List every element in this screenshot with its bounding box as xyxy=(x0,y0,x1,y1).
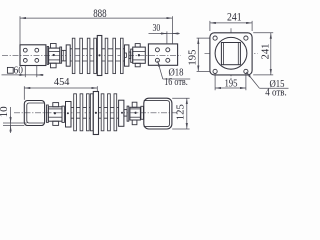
dim line 241 top xyxy=(210,22,252,24)
clamp right bolt bottom xyxy=(135,63,140,67)
ext line hole right xyxy=(36,66,38,78)
cap dot lower-left xyxy=(67,112,69,114)
arrow 10 upper xyxy=(10,116,12,123)
bolt bottom lower-left xyxy=(53,121,59,125)
centerline lower bushing xyxy=(14,112,178,114)
svg-text:125: 125 xyxy=(176,104,187,120)
square symbol of 60 label xyxy=(7,67,13,73)
core top line lower xyxy=(71,106,119,108)
cap stud mark xyxy=(125,53,127,57)
svg-text:241: 241 xyxy=(260,44,271,60)
bolt dot lower-right xyxy=(134,112,136,114)
ext 888 right / 30 right xyxy=(171,16,173,44)
clamp box lower-left xyxy=(48,107,62,121)
clamp left inner line bottom xyxy=(49,59,60,61)
dim line 60 xyxy=(2,74,44,76)
clamp box left xyxy=(49,48,60,63)
flange central circle xyxy=(215,37,247,69)
svg-text:60: 60 xyxy=(14,65,23,76)
clamp box right xyxy=(133,47,146,63)
ext line hole left xyxy=(24,66,26,78)
ext 195B right xyxy=(245,74,247,90)
ext 125 bottom xyxy=(172,128,189,130)
stud stack line xyxy=(62,50,64,61)
conductor inner line left xyxy=(222,43,224,65)
ext 241R top xyxy=(253,32,273,34)
clamp left bolt dot xyxy=(53,54,55,56)
washer lower-left xyxy=(47,105,49,122)
ext 10 top xyxy=(3,122,27,124)
upper insulator left cap xyxy=(66,45,70,66)
svg-text:195: 195 xyxy=(187,50,198,66)
lower flange dot xyxy=(95,112,97,114)
clamp right bolt dot xyxy=(138,54,140,56)
leader dia 18 xyxy=(158,61,163,79)
lower insulator right cap xyxy=(119,100,124,126)
clamp left inner line top xyxy=(49,51,60,53)
arrow 30 left xyxy=(160,33,167,35)
flange dot xyxy=(98,54,100,56)
core bottom line upper xyxy=(70,60,124,62)
cap dot lower-right xyxy=(121,112,123,114)
arrow 60 right xyxy=(37,74,44,76)
ext 195L top xyxy=(197,37,214,39)
stud right xyxy=(129,52,131,59)
bolt top lower-right xyxy=(132,102,137,107)
lower left blade outer xyxy=(24,101,44,126)
leader shelf 18 xyxy=(163,78,190,80)
clamp right bolt top xyxy=(135,44,140,48)
dim line 125 xyxy=(186,98,188,129)
ext 10 bottom xyxy=(3,124,24,126)
ext 195B left xyxy=(214,74,216,90)
right flange plate side view xyxy=(148,44,177,65)
core bottom line lower xyxy=(71,117,119,119)
ext 125 top xyxy=(172,97,189,99)
lower mounting flange side view xyxy=(93,92,98,135)
clamp right inner line bottom xyxy=(133,59,146,61)
lower right blade outer xyxy=(144,98,172,129)
bolt dot lower-left xyxy=(54,112,56,114)
leader shelf 15 xyxy=(259,87,288,89)
right plate holes xyxy=(155,48,159,52)
conductor square in circle xyxy=(221,43,240,65)
bolt bottom lower-right xyxy=(132,120,137,125)
washer left xyxy=(47,47,48,65)
ext 888 left xyxy=(19,16,21,45)
svg-text:241: 241 xyxy=(227,12,242,24)
upper insulator right cap xyxy=(125,45,129,66)
washer lower-right 2 xyxy=(141,106,144,119)
upper sheds right xyxy=(105,38,108,73)
dim line 30 xyxy=(149,33,180,35)
dim line 241 right xyxy=(270,33,272,75)
lower left blade inner xyxy=(27,103,45,123)
upper mounting flange side view xyxy=(97,36,102,76)
arrow 10 lower xyxy=(10,126,12,132)
ext 241R bottom xyxy=(253,74,273,76)
washer right xyxy=(131,49,133,62)
lower sheds left xyxy=(74,94,77,131)
ext 454 right xyxy=(96,86,98,91)
flange centerline horizontal xyxy=(205,52,258,54)
clamp box lower-right xyxy=(130,107,141,120)
stud stack left xyxy=(62,50,66,61)
arrow 60 left xyxy=(19,74,26,76)
washer left 2 xyxy=(60,47,62,63)
ext 30 left xyxy=(166,31,168,44)
svg-text:195: 195 xyxy=(224,78,237,89)
arrow 30 right xyxy=(172,33,179,35)
clamp left bolt top xyxy=(51,44,57,49)
dim line 195 bottom xyxy=(215,87,246,89)
centerline upper bushing xyxy=(2,54,181,56)
clamp lower-left inner line bottom xyxy=(48,116,62,118)
washer lower-right xyxy=(127,106,129,121)
ext 241 top right xyxy=(251,21,253,31)
ext 195L bottom xyxy=(197,70,214,72)
ext 241 top left xyxy=(209,21,211,31)
leader dia 15 xyxy=(246,72,259,88)
flange front square xyxy=(210,33,252,75)
dim line 454 xyxy=(24,87,97,89)
clamp lower-right inner line bottom xyxy=(130,116,141,118)
svg-text:4 отв.: 4 отв. xyxy=(265,87,287,98)
upper bushing left terminal plate xyxy=(20,45,46,66)
dim line 888 xyxy=(20,17,172,19)
flange bolt holes xyxy=(213,36,217,40)
svg-text:454: 454 xyxy=(54,77,70,88)
svg-text:16 отв.: 16 отв. xyxy=(164,77,188,88)
dim line 195 left xyxy=(197,38,199,71)
clamp lower-right inner line top xyxy=(130,108,141,110)
clamp left bolt bottom xyxy=(51,63,57,68)
washer lower-left 2 xyxy=(62,106,64,122)
lower sheds right xyxy=(101,94,104,131)
bolt top lower-left xyxy=(53,103,59,107)
lower insulator left cap xyxy=(66,102,72,128)
lower right blade inner xyxy=(144,101,170,127)
svg-text:888: 888 xyxy=(93,6,106,20)
conductor inner line right xyxy=(237,43,239,65)
upper sheds left xyxy=(72,38,75,73)
dim line 10 xyxy=(10,107,12,133)
clamp lower-left inner line top xyxy=(48,108,62,110)
flange centerline vertical xyxy=(230,28,232,79)
clamp right inner line top xyxy=(133,51,146,53)
stud lower-right xyxy=(124,110,127,117)
ext 454 left xyxy=(23,86,25,100)
core top line upper xyxy=(70,48,124,50)
svg-text:10: 10 xyxy=(0,106,10,117)
svg-text:30: 30 xyxy=(153,23,161,34)
plate holes xyxy=(23,48,27,52)
